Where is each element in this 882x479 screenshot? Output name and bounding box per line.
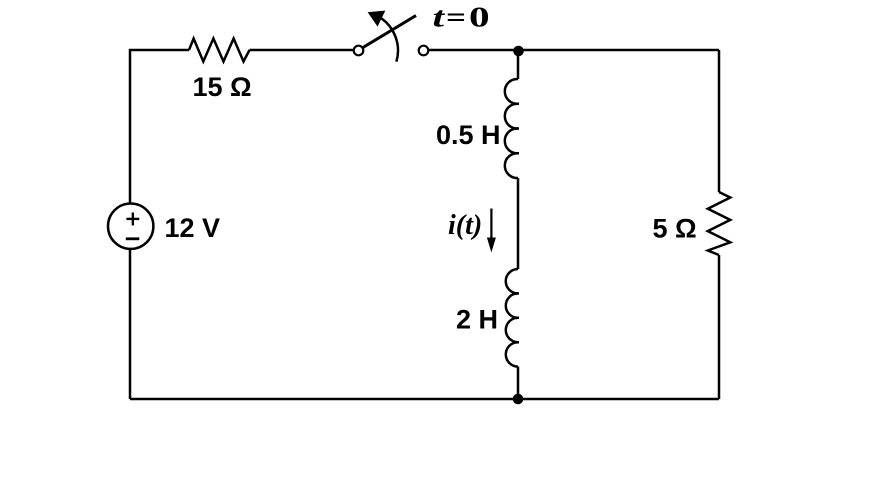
svg-text:i(t): i(t): [448, 210, 482, 241]
wire inductor L2 to bottom node: [517, 367, 520, 399]
switch SW1 pivot terminal: [354, 46, 364, 56]
svg-text:12 V: 12 V: [165, 213, 221, 243]
inductor L1 junction nubs: [513, 104, 520, 154]
svg-text:5 Ω: 5 Ω: [653, 214, 697, 244]
voltage source V1 minus sign: [126, 237, 140, 240]
node B junction dot bottom: [513, 394, 524, 405]
wire switch to top-right corner: [428, 49, 719, 52]
resistor R1 15 ohm: [189, 39, 250, 62]
inductor L2 2 H: [506, 269, 518, 367]
inductor L1 0.5 H: [505, 79, 518, 178]
switch SW1 arrowhead: [369, 11, 385, 25]
voltage source V1 circle: [108, 204, 153, 249]
wire resistor to switch: [250, 49, 354, 52]
svg-text:t=0: t=0: [433, 3, 490, 34]
switch SW1 blade: [363, 16, 416, 48]
wire bottom: [130, 398, 719, 401]
node A junction dot top: [513, 46, 524, 57]
wire left bottom segment: [129, 250, 132, 399]
wire between inductors: [517, 178, 520, 269]
switch SW1 motion arc: [378, 16, 398, 61]
svg-text:15 Ω: 15 Ω: [193, 72, 252, 102]
current arrow i(t): [490, 209, 492, 241]
switch SW1 throw terminal: [419, 46, 429, 56]
resistor R2 5 ohm: [708, 192, 731, 255]
wire right side top: [718, 50, 721, 192]
svg-text:2 H: 2 H: [456, 305, 498, 335]
voltage source V1 plus sign: [126, 218, 139, 220]
svg-text:0.5 H: 0.5 H: [436, 120, 501, 150]
wire top-left segment: [130, 50, 189, 203]
inductor L2 junction nubs: [513, 293, 520, 342]
wire node to inductor L1: [517, 51, 520, 79]
wire right side bottom: [718, 255, 721, 399]
